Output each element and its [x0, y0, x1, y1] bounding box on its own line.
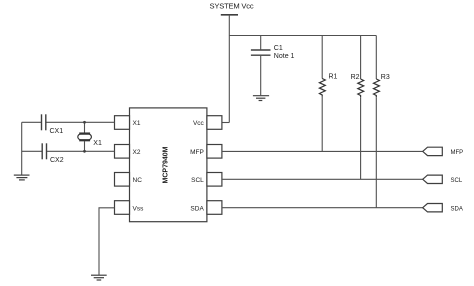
- svg-text:Vss: Vss: [133, 205, 145, 212]
- svg-text:NC: NC: [133, 177, 143, 184]
- svg-text:X1: X1: [93, 140, 102, 147]
- svg-text:C1: C1: [274, 45, 283, 52]
- svg-text:MFP: MFP: [190, 149, 204, 156]
- wire left vertical: [21, 122, 23, 175]
- ground under C1: [253, 96, 269, 101]
- pin 8 box Vcc: [207, 116, 222, 130]
- svg-text:R2: R2: [351, 74, 360, 81]
- wire left of CX2: [22, 150, 43, 152]
- capacitor CX2: [42, 143, 64, 164]
- svg-text:SCL: SCL: [191, 177, 204, 184]
- pin 7 box MFP: [207, 145, 222, 159]
- resistor R1: [319, 36, 337, 152]
- svg-text:X1: X1: [133, 120, 141, 127]
- capacitor CX1: [42, 114, 64, 135]
- svg-text:SDA: SDA: [190, 205, 204, 212]
- crystal X1: [78, 121, 102, 153]
- power SYSTEM Vcc: [210, 2, 254, 15]
- ground left: [14, 175, 30, 180]
- wire top bus: [229, 35, 376, 37]
- wire Vcc pin to rail: [222, 122, 229, 124]
- svg-text:MCP7940M: MCP7940M: [163, 146, 170, 183]
- wire Vss to ground: [99, 208, 115, 275]
- svg-text:CX1: CX1: [50, 128, 64, 135]
- svg-text:Note 1: Note 1: [274, 53, 295, 60]
- wire MFP net: [222, 150, 423, 152]
- wire SCL net: [222, 178, 423, 180]
- svg-text:SCL: SCL: [451, 178, 463, 184]
- capacitor C1: [251, 36, 295, 96]
- connector SCL: [423, 175, 463, 184]
- wire X1 net: [46, 121, 115, 123]
- resistor R2: [351, 36, 364, 180]
- wire X2 net: [47, 150, 115, 152]
- svg-text:MFP: MFP: [451, 150, 464, 156]
- ground Vss: [91, 275, 107, 280]
- svg-text:R1: R1: [329, 74, 338, 81]
- connector MFP: [423, 147, 463, 156]
- pin 5 box SDA: [207, 201, 222, 215]
- resistor R3: [374, 36, 390, 208]
- svg-text:Vcc: Vcc: [193, 120, 205, 127]
- wire left of CX1: [22, 121, 42, 123]
- pin 3 box NC: [115, 173, 130, 187]
- connector SDA: [423, 204, 463, 213]
- svg-text:SDA: SDA: [451, 206, 463, 212]
- wire SDA net: [222, 207, 423, 209]
- pin 1 box X1: [115, 116, 130, 130]
- IC U1 MCP7940M body: [130, 108, 207, 222]
- svg-text:X2: X2: [133, 149, 141, 156]
- svg-text:CX2: CX2: [50, 157, 64, 164]
- pin 4 box Vss: [115, 201, 130, 215]
- pin 6 box SCL: [207, 173, 222, 187]
- svg-text:SYSTEM Vcc: SYSTEM Vcc: [210, 2, 254, 11]
- pin 2 box X2: [115, 145, 130, 159]
- wire Vcc rail down to Vcc pin: [228, 15, 230, 123]
- svg-text:R3: R3: [381, 74, 390, 81]
